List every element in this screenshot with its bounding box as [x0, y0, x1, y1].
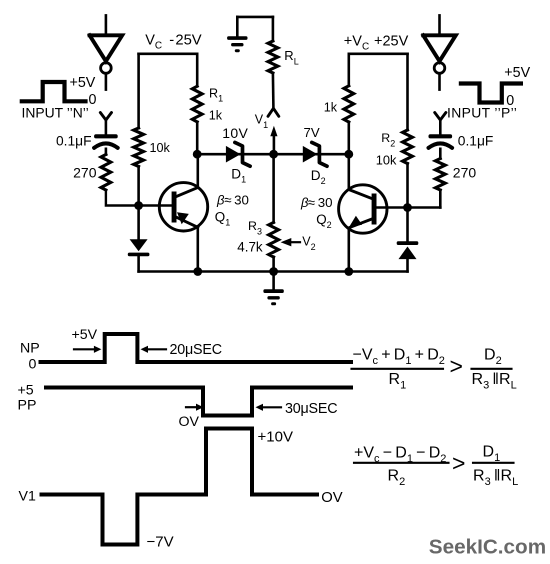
svg-text:+25V: +25V	[374, 34, 409, 50]
svg-text:OV: OV	[179, 414, 200, 430]
svg-text:10k: 10k	[376, 153, 397, 168]
svg-text:INPUT ’’N’’: INPUT ’’N’’	[22, 105, 89, 121]
svg-text:+5: +5	[18, 383, 34, 399]
svg-text:270: 270	[73, 164, 97, 180]
svg-text:>: >	[450, 353, 463, 379]
svg-text:+10V: +10V	[258, 429, 293, 446]
svg-text:PP: PP	[18, 398, 37, 414]
svg-text:≈ 30: ≈ 30	[224, 193, 249, 208]
svg-text:INPUT ’’P’’: INPUT ’’P’’	[447, 105, 517, 121]
svg-text:1k: 1k	[324, 101, 338, 115]
svg-text:+5V: +5V	[70, 75, 96, 91]
svg-text:SeekIC.com: SeekIC.com	[429, 536, 546, 559]
svg-text:OV: OV	[321, 490, 343, 506]
svg-text:−7V: −7V	[147, 534, 174, 551]
svg-text:270: 270	[453, 164, 477, 180]
svg-text:0: 0	[89, 92, 97, 108]
svg-text:+5V: +5V	[72, 327, 98, 343]
svg-text:30μSEC: 30μSEC	[285, 401, 337, 417]
svg-text:- 25V: - 25V	[169, 32, 202, 48]
svg-text:0: 0	[29, 357, 37, 373]
svg-text:10k: 10k	[150, 141, 171, 155]
svg-text:>: >	[452, 450, 465, 476]
svg-text:≈ 30: ≈ 30	[308, 195, 333, 210]
svg-text:1k: 1k	[209, 109, 223, 123]
svg-text:7V: 7V	[304, 125, 320, 140]
svg-text:0.1μF: 0.1μF	[56, 133, 92, 148]
svg-text:V1: V1	[19, 489, 36, 505]
svg-text:+5V: +5V	[504, 65, 530, 81]
svg-text:4.7k: 4.7k	[237, 239, 263, 254]
svg-text:NP: NP	[20, 341, 40, 357]
svg-text:0.1μF: 0.1μF	[458, 133, 494, 148]
svg-text:10V: 10V	[222, 125, 248, 141]
svg-text:20μSEC: 20μSEC	[170, 342, 222, 358]
